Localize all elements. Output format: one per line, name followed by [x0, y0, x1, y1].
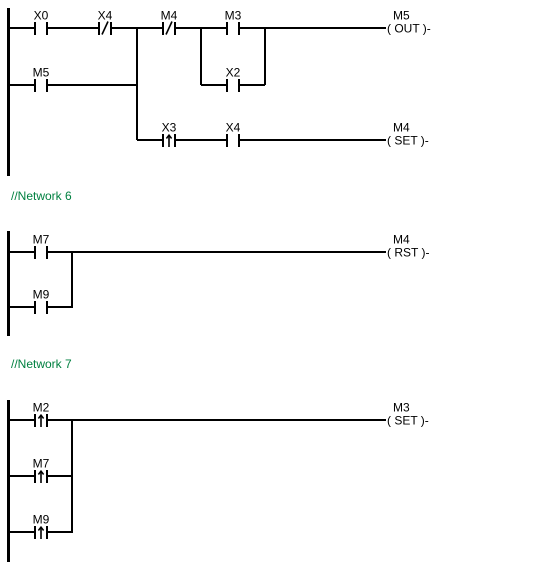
- wire X4 to M4 through junction: [112, 27, 162, 29]
- svg-text:X0: X0: [34, 9, 49, 23]
- svg-text:M5: M5: [33, 66, 50, 80]
- left power rail (network 5): [7, 8, 10, 176]
- svg-text:X4: X4: [98, 9, 113, 23]
- coil M5 (OUT): [387, 9, 431, 36]
- wire rail to M5 contact (rung 2): [10, 84, 34, 86]
- wire X4 to coil M4: [240, 139, 386, 141]
- wire rail to M7 (network 6 rung 1): [10, 251, 34, 253]
- svg-text:M7: M7: [33, 457, 50, 471]
- wire branch to X2: [201, 84, 226, 86]
- wire M3 to coil M5: [240, 27, 386, 29]
- coil M4 (RST): [387, 233, 429, 260]
- contact M9 (NO): [33, 288, 50, 315]
- contact M2 (rising edge): [33, 401, 50, 428]
- svg-text:M9: M9: [33, 513, 50, 527]
- svg-text:X4: X4: [226, 121, 241, 135]
- left power rail (network 7): [7, 400, 10, 562]
- svg-text:M3: M3: [393, 401, 410, 415]
- svg-text:M4: M4: [161, 9, 178, 23]
- svg-text://Network 6: //Network 6: [11, 189, 72, 203]
- wire rail to M9 (network 7 rung 3): [10, 531, 34, 533]
- svg-text:M5: M5: [393, 9, 410, 23]
- contact M5 (NO): [33, 66, 50, 93]
- contact M7 (NO): [33, 233, 50, 260]
- contact X2 (NO): [226, 66, 241, 93]
- wire X2 to branch right: [240, 84, 265, 86]
- svg-text://Network 7: //Network 7: [11, 357, 72, 371]
- wire M4 to parallel branch: [176, 27, 226, 29]
- svg-text:M9: M9: [33, 288, 50, 302]
- svg-text:( OUT )-: ( OUT )-: [387, 22, 431, 36]
- coil M4 (SET): [387, 121, 429, 148]
- wire X0 to X4: [48, 27, 98, 29]
- contact M9 (rising edge): [33, 513, 50, 540]
- wire M9 to junction (network 7): [48, 531, 73, 533]
- contact X0 (NO): [34, 9, 49, 36]
- wire M7 to coil M4 RST: [48, 251, 386, 253]
- svg-text:M7: M7: [33, 233, 50, 247]
- contact X4 (NO, rung 3): [226, 121, 241, 148]
- svg-text:M4: M4: [393, 121, 410, 135]
- junction vertical wire (network 7): [71, 420, 73, 532]
- svg-text:M2: M2: [33, 401, 50, 415]
- wire M2 to coil M3 SET: [48, 419, 386, 421]
- contact X4 (NC): [98, 9, 113, 36]
- svg-text:M4: M4: [393, 233, 410, 247]
- contact M4 (NC): [161, 9, 178, 36]
- wire M9 to junction: [48, 306, 73, 308]
- wire M7 to junction (network 7): [48, 475, 73, 477]
- svg-text:X3: X3: [162, 121, 177, 135]
- node branch right vertical (M3/X2 parallel): [264, 28, 266, 85]
- wire rail to M7 (network 7 rung 2): [10, 475, 34, 477]
- svg-text:( RST )-: ( RST )-: [387, 246, 429, 260]
- svg-text:( SET )-: ( SET )-: [387, 414, 429, 428]
- junction vertical wire (network 6): [71, 252, 73, 307]
- node branch left vertical (M3/X2 parallel): [200, 28, 202, 85]
- wire M5 contact to junction: [48, 84, 137, 86]
- junction vertical wire: [136, 28, 138, 140]
- left power rail (network 6): [7, 231, 10, 336]
- wire rail to X0 (rung 1): [10, 27, 34, 29]
- wire rail to M2 (network 7 rung 1): [10, 419, 34, 421]
- wire X3 to X4: [176, 139, 226, 141]
- contact M7 (rising edge): [33, 457, 50, 484]
- coil M3 (SET): [387, 401, 429, 428]
- svg-text:X2: X2: [226, 66, 241, 80]
- contact X3 (rising edge): [162, 121, 177, 148]
- wire junction to X3 (rung 3): [137, 139, 162, 141]
- wire rail to M9 (network 6 rung 2): [10, 306, 34, 308]
- contact M3 (NO): [225, 9, 242, 36]
- svg-text:M3: M3: [225, 9, 242, 23]
- svg-text:( SET )-: ( SET )-: [387, 134, 429, 148]
